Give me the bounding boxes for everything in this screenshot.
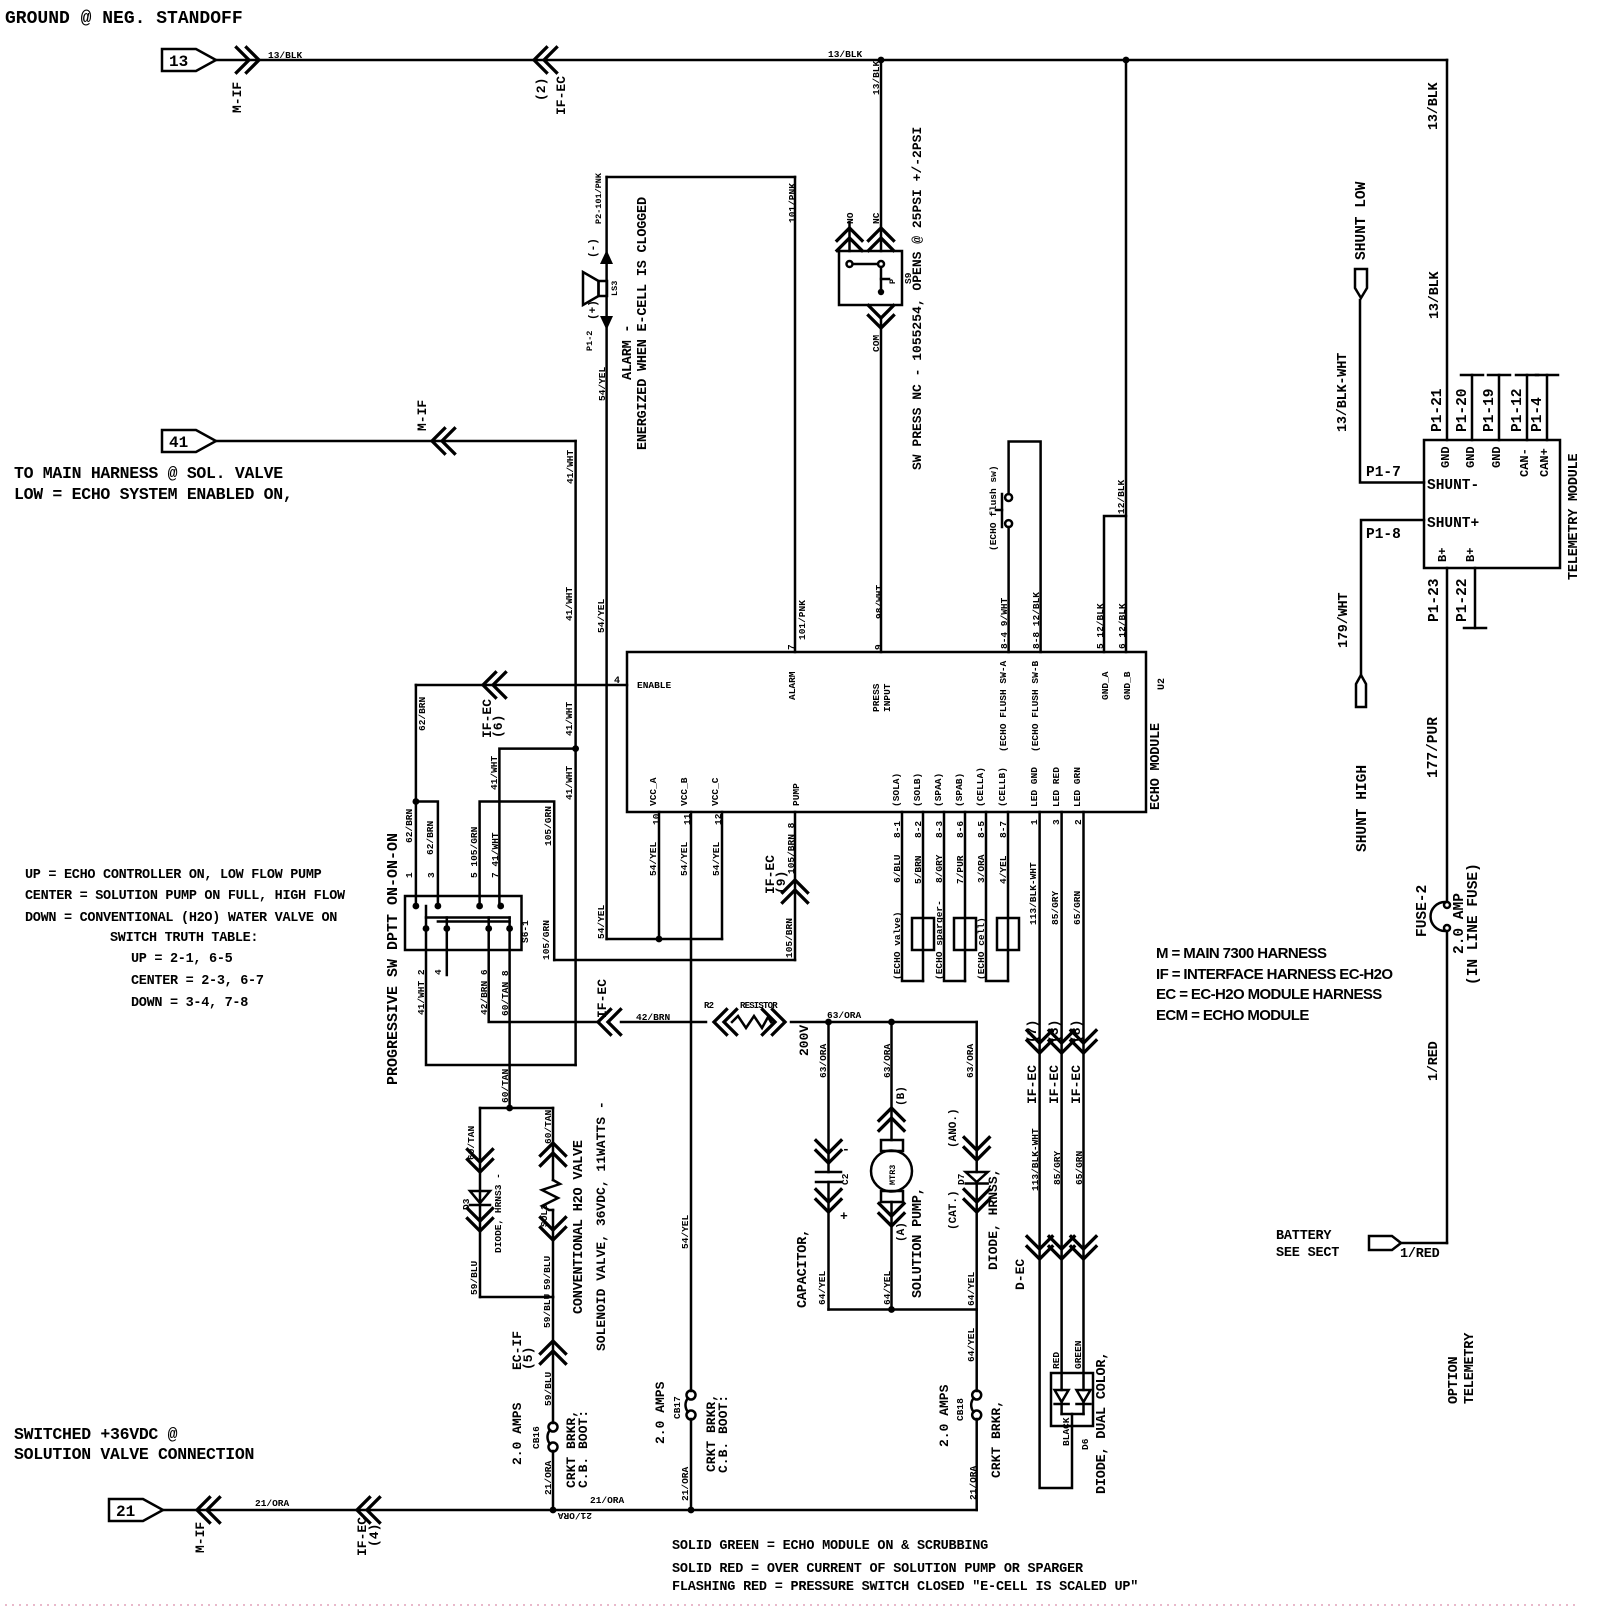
wire 54/YEL horizontal xyxy=(607,938,722,941)
wire 60/TAN valve top xyxy=(480,1107,553,1110)
svg-text:1: 1 xyxy=(1029,819,1040,825)
svg-text:P1-4: P1-4 xyxy=(1530,397,1546,432)
svg-text:C.B. BOOT:: C.B. BOOT: xyxy=(576,1410,591,1488)
svg-text:54/YEL: 54/YEL xyxy=(597,366,608,401)
svg-text:B+: B+ xyxy=(1464,548,1478,562)
svg-text:105/BRN 8: 105/BRN 8 xyxy=(786,822,797,874)
connector 13 xyxy=(162,49,216,71)
svg-text:PRESS: PRESS xyxy=(871,683,882,712)
svg-text:4: 4 xyxy=(433,969,444,975)
wire 54/YEL VCC_C xyxy=(721,812,724,939)
svg-text:5/BRN: 5/BRN xyxy=(913,855,924,884)
connector chevron IF-EC (9) xyxy=(783,880,808,903)
svg-text:(ECHO valve): (ECHO valve) xyxy=(892,912,903,980)
pressure switch NO stub xyxy=(848,222,851,251)
svg-text:(ECHO FLUSH SW-B: (ECHO FLUSH SW-B xyxy=(1030,660,1041,752)
wire alarm speaker branch xyxy=(605,177,608,939)
diode D7 xyxy=(966,1172,988,1182)
svg-text:(ECHO flush sw): (ECHO flush sw) xyxy=(988,465,999,551)
svg-text:ENERGIZED WHEN E-CELL IS CLOGG: ENERGIZED WHEN E-CELL IS CLOGGED xyxy=(636,197,651,450)
svg-text:(6): (6) xyxy=(491,715,506,738)
wire capacitor branch xyxy=(827,1022,830,1172)
svg-text:CONVENTIONAL H2O VALVE: CONVENTIONAL H2O VALVE xyxy=(572,1140,587,1314)
svg-text:RED: RED xyxy=(1051,1352,1062,1369)
svg-text:DIODE, HRNSS,: DIODE, HRNSS, xyxy=(986,1169,1001,1270)
svg-text:21/ORA: 21/ORA xyxy=(255,1498,290,1509)
svg-text:P1-23: P1-23 xyxy=(1427,578,1443,622)
wire 41/WHT pin2 xyxy=(426,929,576,1066)
wire 60/TAN pin8 xyxy=(508,929,511,1109)
fuse FUSE-2 xyxy=(1444,902,1450,908)
svg-text:GND: GND xyxy=(1439,446,1453,468)
telemetry module box xyxy=(1424,440,1560,568)
svg-text:21/ORA: 21/ORA xyxy=(557,1510,592,1521)
svg-text:10: 10 xyxy=(651,813,662,825)
wire shunt- xyxy=(1360,300,1424,483)
svg-text:GND: GND xyxy=(1490,446,1504,468)
wire diode D7 branch xyxy=(975,1022,978,1172)
wire 12/BLK GND_A jog xyxy=(1104,516,1126,652)
svg-text:(7): (7) xyxy=(1025,1020,1040,1043)
svg-text:S6-1: S6-1 xyxy=(520,920,531,943)
svg-text:105/GRN: 105/GRN xyxy=(541,920,552,960)
svg-text:PUMP: PUMP xyxy=(791,783,802,806)
wire pair 8-3/8-6 xyxy=(944,812,965,981)
svg-text:CENTER = 2-3, 6-7: CENTER = 2-3, 6-7 xyxy=(131,974,264,989)
svg-text:LED GND: LED GND xyxy=(1029,767,1040,807)
svg-text:7 41/WHT: 7 41/WHT xyxy=(490,832,501,878)
svg-text:NO: NO xyxy=(845,212,856,224)
svg-text:P1-2: P1-2 xyxy=(585,331,595,351)
svg-text:(2): (2) xyxy=(534,78,549,101)
ECHO module U2 xyxy=(627,652,1146,812)
svg-text:IF-EC: IF-EC xyxy=(554,76,569,115)
svg-text:DIODE, DUAL COLOR,: DIODE, DUAL COLOR, xyxy=(1095,1352,1110,1494)
svg-text:41/WHT: 41/WHT xyxy=(564,586,575,621)
circuit breaker CB18 xyxy=(972,1391,981,1400)
svg-text:4/YEL: 4/YEL xyxy=(998,855,1009,884)
svg-text:13/BLK: 13/BLK xyxy=(268,50,303,61)
svg-text:(SPAA): (SPAA) xyxy=(933,773,944,807)
svg-text:177/PUR: 177/PUR xyxy=(1426,717,1442,778)
speaker LS3 xyxy=(599,281,608,296)
pressure switch COM chevron xyxy=(869,306,894,329)
svg-text:(-): (-) xyxy=(588,238,600,258)
svg-text:54/YEL: 54/YEL xyxy=(648,841,659,876)
svg-text:2: 2 xyxy=(1073,819,1084,825)
wire 21/ORA bus xyxy=(163,1509,977,1512)
wire 54/YEL VCC_B xyxy=(690,812,693,1391)
svg-text:GND: GND xyxy=(1464,446,1478,468)
svg-text:NC: NC xyxy=(871,212,882,224)
svg-text:113/BLK-WHT: 113/BLK-WHT xyxy=(1028,862,1039,925)
load box on 8-7 xyxy=(997,918,1019,950)
svg-text:GND_B: GND_B xyxy=(1122,671,1133,700)
svg-text:SWITCHED +36VDC @: SWITCHED +36VDC @ xyxy=(14,1425,178,1444)
svg-text:3: 3 xyxy=(1051,819,1062,825)
svg-text:M-IF: M-IF xyxy=(193,1522,208,1553)
svg-text:9: 9 xyxy=(873,644,884,650)
svg-text:13/BLK: 13/BLK xyxy=(828,49,863,60)
svg-text:D7: D7 xyxy=(956,1173,967,1185)
svg-text:13/BLK-WHT: 13/BLK-WHT xyxy=(1336,353,1351,432)
svg-text:179/WHT: 179/WHT xyxy=(1337,593,1352,648)
echo flush switch xyxy=(1005,520,1012,527)
load box on 8-6 xyxy=(954,918,976,950)
svg-text:SHUNT+: SHUNT+ xyxy=(1427,516,1479,532)
svg-text:CRKT BRKR,: CRKT BRKR, xyxy=(989,1400,1004,1478)
circuit breaker CB16 xyxy=(549,1423,558,1432)
svg-text:2.0 AMPS: 2.0 AMPS xyxy=(937,1384,952,1447)
wire 113/BLK-WHT LED GND xyxy=(1040,812,1072,1488)
svg-text:60/TAN: 60/TAN xyxy=(466,1125,477,1160)
svg-text:8-7: 8-7 xyxy=(998,821,1009,838)
svg-text:59/BLU: 59/BLU xyxy=(542,1293,553,1328)
svg-text:200V: 200V xyxy=(797,1025,812,1056)
wire 63/ORA xyxy=(791,1021,977,1024)
svg-text:42/BRN: 42/BRN xyxy=(636,1012,671,1023)
svg-text:SEE SECT: SEE SECT xyxy=(1276,1246,1339,1261)
connector shunt low xyxy=(1355,269,1367,298)
svg-text:21: 21 xyxy=(116,1503,135,1521)
svg-text:DOWN = CONVENTIONAL (H2O) WATE: DOWN = CONVENTIONAL (H2O) WATER VALVE ON xyxy=(25,911,337,926)
svg-text:(8): (8) xyxy=(1069,1020,1084,1043)
connector chevron M-IF xyxy=(237,48,260,73)
svg-text:GROUND @ NEG. STANDOFF: GROUND @ NEG. STANDOFF xyxy=(5,9,243,29)
wire 62/BRN pin1 xyxy=(415,685,418,906)
svg-text:M-IF: M-IF xyxy=(230,82,245,113)
svg-text:TO MAIN HARNESS @ SOL. VALVE: TO MAIN HARNESS @ SOL. VALVE xyxy=(14,464,283,483)
connector chevron IF-EC (6) xyxy=(483,673,506,698)
wire 13/BLK top bus xyxy=(216,59,1447,62)
wire 12/BLK GND_B xyxy=(1125,60,1128,652)
arrow up (-) xyxy=(600,250,613,264)
svg-text:41/WHT: 41/WHT xyxy=(564,765,575,800)
connector chevrons IF-EC (7)(3)(8) xyxy=(1027,1031,1052,1054)
svg-text:21/ORA: 21/ORA xyxy=(590,1495,625,1506)
svg-text:SOLENOID VALVE, 36VDC, 11WATTS: SOLENOID VALVE, 36VDC, 11WATTS - xyxy=(594,1101,609,1351)
connector 41 xyxy=(162,430,216,452)
svg-text:ENABLE: ENABLE xyxy=(637,680,672,691)
svg-text:6 12/BLK: 6 12/BLK xyxy=(1117,603,1128,649)
connector shunt high xyxy=(1356,675,1366,707)
svg-text:SOLUTION PUMP,: SOLUTION PUMP, xyxy=(911,1187,926,1298)
svg-text:IF-EC: IF-EC xyxy=(1069,1065,1084,1104)
connector chevrons D-EC xyxy=(1027,1237,1052,1260)
svg-text:D6: D6 xyxy=(1080,1438,1091,1450)
svg-text:41/WHT: 41/WHT xyxy=(565,449,576,484)
arrow down (+) xyxy=(600,316,613,330)
svg-text:OPTION: OPTION xyxy=(1447,1356,1462,1404)
svg-text:INPUT: INPUT xyxy=(882,683,893,712)
svg-text:105/BRN: 105/BRN xyxy=(784,918,795,958)
svg-text:8-6: 8-6 xyxy=(955,821,966,838)
svg-text:13/BLK: 13/BLK xyxy=(1427,81,1442,130)
svg-text:-: - xyxy=(842,1142,850,1157)
svg-text:GND_A: GND_A xyxy=(1100,671,1111,700)
svg-text:(+): (+) xyxy=(588,300,600,320)
wire alarm loop top xyxy=(607,176,795,179)
wire 101/PNK alarm right xyxy=(794,177,797,652)
svg-text:(ANO.): (ANO.) xyxy=(948,1108,960,1148)
svg-text:8-5: 8-5 xyxy=(976,821,987,838)
page border dotted xyxy=(5,1604,1580,1606)
svg-text:(ECHO sparger-: (ECHO sparger- xyxy=(934,900,945,980)
svg-text:2.0 AMPS: 2.0 AMPS xyxy=(653,1381,668,1444)
svg-text:12/BLK: 12/BLK xyxy=(1116,479,1127,514)
diode D3 xyxy=(470,1191,490,1203)
svg-text:(ECHO cell): (ECHO cell) xyxy=(976,917,987,980)
svg-text:(B): (B) xyxy=(896,1086,908,1106)
svg-text:7/PUR: 7/PUR xyxy=(955,855,966,884)
svg-text:SHUNT LOW: SHUNT LOW xyxy=(1354,181,1370,260)
svg-text:60/TAN: 60/TAN xyxy=(543,1109,554,1144)
svg-text:60/TAN: 60/TAN xyxy=(500,1068,511,1103)
svg-text:(SPAB): (SPAB) xyxy=(954,773,965,807)
diode D6 dual color LED xyxy=(1051,1373,1093,1426)
wire 13/BLK drop to pressure switch xyxy=(880,60,883,251)
svg-text:64/YEL: 64/YEL xyxy=(817,1270,828,1305)
connector chevron M-IF xyxy=(432,429,455,454)
svg-text:+: + xyxy=(840,1209,848,1224)
svg-text:101/PNK: 101/PNK xyxy=(797,600,808,640)
progressive switch S6-1 xyxy=(405,896,522,950)
svg-text:2.0 AMPS: 2.0 AMPS xyxy=(510,1402,525,1465)
svg-text:59/BLU: 59/BLU xyxy=(469,1260,480,1295)
svg-text:7: 7 xyxy=(786,644,797,650)
svg-text:SWITCH TRUTH TABLE:: SWITCH TRUTH TABLE: xyxy=(110,931,258,946)
wire pair 8-5/8-7 xyxy=(986,812,1008,981)
svg-text:(CAT.): (CAT.) xyxy=(948,1190,960,1230)
svg-text:13/BLK: 13/BLK xyxy=(871,60,882,95)
svg-text:63/ORA: 63/ORA xyxy=(965,1043,976,1078)
svg-text:64/YEL: 64/YEL xyxy=(882,1270,893,1305)
svg-text:42/BRN 6: 42/BRN 6 xyxy=(479,969,490,1015)
svg-text:SHUNT HIGH: SHUNT HIGH xyxy=(1355,765,1371,852)
svg-text:85/GRY: 85/GRY xyxy=(1052,1150,1063,1185)
svg-text:5 105/GRN: 5 105/GRN xyxy=(469,826,480,878)
wire SOL3 branch xyxy=(552,1108,555,1180)
svg-text:8-3: 8-3 xyxy=(934,821,945,838)
svg-text:MTR3: MTR3 xyxy=(888,1165,898,1185)
svg-text:54/YEL: 54/YEL xyxy=(679,841,690,876)
svg-text:62/BRN: 62/BRN xyxy=(404,808,415,843)
svg-text:CAN+: CAN+ xyxy=(1538,448,1552,477)
svg-text:VCC_B: VCC_B xyxy=(679,777,690,806)
svg-text:P1-12: P1-12 xyxy=(1510,388,1526,432)
svg-text:CENTER = SOLUTION PUMP ON FULL: CENTER = SOLUTION PUMP ON FULL, HIGH FLO… xyxy=(25,889,346,904)
svg-text:LOW = ECHO SYSTEM ENABLED ON,: LOW = ECHO SYSTEM ENABLED ON, xyxy=(14,485,292,504)
wire valve loop bottom xyxy=(480,1296,553,1299)
wire 65/GRN LED GRN xyxy=(1082,812,1085,1390)
svg-text:3/ORA: 3/ORA xyxy=(976,854,987,883)
svg-text:M-IF: M-IF xyxy=(415,400,430,431)
svg-text:59/BLU: 59/BLU xyxy=(543,1371,554,1406)
wire enable xyxy=(416,684,627,687)
svg-text:P1-19: P1-19 xyxy=(1482,388,1498,432)
svg-text:63/ORA: 63/ORA xyxy=(882,1043,893,1078)
svg-text:54/YEL: 54/YEL xyxy=(596,904,607,939)
svg-text:TELEMETRY: TELEMETRY xyxy=(1463,1332,1478,1404)
svg-text:SOLUTION VALVE CONNECTION: SOLUTION VALVE CONNECTION xyxy=(14,1445,254,1464)
svg-text:60/TAN 8: 60/TAN 8 xyxy=(500,970,511,1016)
wire 41/WHT top xyxy=(216,440,576,443)
wire 105/BRN pump xyxy=(794,812,797,960)
wire 98/WHT press input xyxy=(880,318,883,652)
wire to CB18 xyxy=(975,1310,978,1392)
svg-text:13: 13 xyxy=(169,53,188,71)
svg-text:(SOLB): (SOLB) xyxy=(912,773,923,807)
wire 54/YEL VCC_A xyxy=(658,812,661,939)
wire pin4 stub xyxy=(446,929,449,976)
wire pair 8-1/8-2 xyxy=(902,812,923,981)
svg-text:VCC_C: VCC_C xyxy=(710,777,721,806)
svg-text:8-4 9/WHT: 8-4 9/WHT xyxy=(999,597,1010,649)
svg-text:101/PNK: 101/PNK xyxy=(787,183,798,223)
resistor R2 xyxy=(714,1010,737,1035)
svg-text:13/BLK: 13/BLK xyxy=(1428,270,1443,319)
svg-text:59/BLU: 59/BLU xyxy=(542,1255,553,1290)
svg-text:(IN LINE FUSE): (IN LINE FUSE) xyxy=(1466,863,1482,985)
svg-text:1/RED: 1/RED xyxy=(1400,1247,1440,1262)
svg-text:D-EC: D-EC xyxy=(1013,1259,1028,1290)
svg-text:ECHO MODULE: ECHO MODULE xyxy=(1149,723,1164,810)
svg-text:6/BLU: 6/BLU xyxy=(892,854,903,883)
wire 42/BRN to resistor xyxy=(598,1010,621,1035)
svg-text:IF = INTERFACE HARNESS EC-H2O: IF = INTERFACE HARNESS EC-H2O xyxy=(1156,966,1393,983)
svg-text:CB16: CB16 xyxy=(531,1426,542,1449)
svg-text:21/ORA: 21/ORA xyxy=(680,1466,691,1501)
svg-text:M = MAIN 7300 HARNESS: M = MAIN 7300 HARNESS xyxy=(1156,945,1327,962)
svg-text:P2-101/PNK: P2-101/PNK xyxy=(594,172,604,224)
svg-text:64/YEL: 64/YEL xyxy=(966,1327,977,1362)
svg-text:EC = EC-H2O MODULE HARNESS: EC = EC-H2O MODULE HARNESS xyxy=(1156,986,1382,1003)
svg-text:41/WHT: 41/WHT xyxy=(489,755,500,790)
svg-text:(CELLB): (CELLB) xyxy=(997,767,1008,807)
svg-text:4: 4 xyxy=(614,676,620,687)
wire P1-22 stub xyxy=(1474,568,1477,628)
svg-text:UP = ECHO CONTROLLER ON, LOW F: UP = ECHO CONTROLLER ON, LOW FLOW PUMP xyxy=(25,868,322,883)
svg-text:VCC_A: VCC_A xyxy=(648,777,659,806)
svg-text:1: 1 xyxy=(404,872,415,878)
wire 85/GRY LED RED xyxy=(1060,812,1063,1390)
svg-text:(4): (4) xyxy=(367,1524,382,1547)
wire 62/BRN pin3 xyxy=(416,802,438,907)
pin stubs P1-20 P1-19 P1-12 P1-4 xyxy=(1471,375,1474,440)
svg-text:CB17: CB17 xyxy=(672,1396,683,1419)
svg-text:CAN-: CAN- xyxy=(1518,448,1532,477)
svg-text:64/YEL: 64/YEL xyxy=(966,1271,977,1306)
svg-text:LED GRN: LED GRN xyxy=(1072,767,1083,807)
svg-text:DOWN = 3-4, 7-8: DOWN = 3-4, 7-8 xyxy=(131,996,248,1011)
svg-text:SOLID RED = OVER CURRENT OF SO: SOLID RED = OVER CURRENT OF SOLUTION PUM… xyxy=(672,1562,1084,1577)
svg-text:PROGRESSIVE SW DPTT ON-ON-ON: PROGRESSIVE SW DPTT ON-ON-ON xyxy=(385,833,402,1085)
svg-text:5 12/BLK: 5 12/BLK xyxy=(1095,603,1106,649)
svg-text:SW PRESS NC - 1055254, OPENS @: SW PRESS NC - 1055254, OPENS @ 25PSI +/-… xyxy=(910,127,925,470)
pressure switch contacts xyxy=(847,261,853,267)
connector chevron (2) IF-EC xyxy=(534,48,557,73)
svg-text:21/ORA: 21/ORA xyxy=(543,1460,554,1495)
svg-text:LS3: LS3 xyxy=(610,281,620,296)
capacitor C2 xyxy=(816,1171,841,1174)
svg-text:63/ORA: 63/ORA xyxy=(827,1010,862,1021)
svg-text:BLACK: BLACK xyxy=(1061,1417,1072,1446)
svg-text:P1-21: P1-21 xyxy=(1430,388,1446,432)
svg-text:62/BRN: 62/BRN xyxy=(417,696,428,731)
svg-text:P1-20: P1-20 xyxy=(1455,388,1471,432)
svg-text:(3): (3) xyxy=(1047,1020,1062,1043)
svg-text:DIODE, HRNS3 -: DIODE, HRNS3 - xyxy=(493,1173,504,1253)
wire B+ 1/RED xyxy=(1446,568,1449,901)
connector chevron EC-IF (5) xyxy=(541,1341,566,1364)
svg-text:LED RED: LED RED xyxy=(1051,767,1062,807)
wire 41/WHT pin7 xyxy=(499,749,575,906)
svg-text:63/ORA: 63/ORA xyxy=(818,1043,829,1078)
svg-text:65/GRN: 65/GRN xyxy=(1074,1150,1085,1185)
svg-text:62/BRN: 62/BRN xyxy=(425,820,436,855)
svg-text:65/GRN: 65/GRN xyxy=(1072,890,1083,925)
svg-text:C.B. BOOT:: C.B. BOOT: xyxy=(716,1395,731,1473)
svg-text:(SOLA): (SOLA) xyxy=(891,773,902,807)
svg-text:SOLID GREEN = ECHO MODULE ON &: SOLID GREEN = ECHO MODULE ON & SCRUBBING xyxy=(672,1539,988,1554)
svg-text:8-8 12/BLK: 8-8 12/BLK xyxy=(1031,592,1042,649)
svg-text:IF-EC: IF-EC xyxy=(1047,1065,1062,1104)
svg-text:12: 12 xyxy=(713,813,724,825)
wire motor branch xyxy=(890,1022,893,1140)
svg-text:(9): (9) xyxy=(774,871,789,894)
svg-text:54/YEL: 54/YEL xyxy=(680,1214,691,1249)
svg-text:11: 11 xyxy=(682,813,693,825)
svg-text:RESISTOR: RESISTOR xyxy=(740,1001,778,1011)
svg-text:FLASHING RED = PRESSURE SWITCH: FLASHING RED = PRESSURE SWITCH CLOSED "E… xyxy=(672,1580,1138,1595)
svg-text:TELEMETRY MODULE: TELEMETRY MODULE xyxy=(1567,453,1582,580)
pressure switch NC chevron xyxy=(869,228,894,251)
svg-text:IF-EC: IF-EC xyxy=(595,979,610,1018)
svg-text:85/GRY: 85/GRY xyxy=(1050,890,1061,925)
svg-text:98/WHT: 98/WHT xyxy=(874,584,885,619)
svg-text:B+: B+ xyxy=(1436,548,1450,562)
svg-text:CB18: CB18 xyxy=(955,1398,966,1421)
svg-text:R2: R2 xyxy=(704,1001,714,1011)
wire 42/BRN pin6 xyxy=(489,929,597,1023)
svg-text:113/BLK-WHT: 113/BLK-WHT xyxy=(1030,1128,1041,1191)
svg-text:8-2: 8-2 xyxy=(913,821,924,838)
wire 13/BLK right drop xyxy=(1446,60,1449,440)
svg-text:SHUNT-: SHUNT- xyxy=(1427,478,1479,494)
svg-text:UP = 2-1, 6-5: UP = 2-1, 6-5 xyxy=(131,952,233,967)
svg-text:P1-8: P1-8 xyxy=(1366,527,1401,543)
load box on 8-2 xyxy=(912,918,934,950)
svg-text:P: P xyxy=(888,279,898,284)
svg-text:FUSE-2: FUSE-2 xyxy=(1415,885,1431,937)
svg-text:ALARM: ALARM xyxy=(787,671,798,700)
svg-text:BATTERY: BATTERY xyxy=(1276,1229,1332,1244)
svg-text:3: 3 xyxy=(426,872,437,878)
svg-text:U2: U2 xyxy=(1157,678,1168,690)
svg-text:21/ORA: 21/ORA xyxy=(968,1465,979,1500)
svg-text:P1-22: P1-22 xyxy=(1455,578,1471,622)
connector chevron M-IF xyxy=(197,1498,220,1523)
svg-text:ALARM -: ALARM - xyxy=(621,325,636,380)
connector 21 xyxy=(109,1499,163,1521)
wire diode D3 branch xyxy=(479,1108,482,1297)
svg-text:ECM = ECHO MODULE: ECM = ECHO MODULE xyxy=(1156,1007,1309,1024)
wire pump circuit bottom 64/YEL xyxy=(829,1308,977,1311)
svg-text:41/WHT 2: 41/WHT 2 xyxy=(416,969,427,1015)
svg-text:GREEN: GREEN xyxy=(1073,1340,1084,1369)
pressure switch S9 xyxy=(839,251,902,305)
svg-text:(A): (A) xyxy=(896,1222,908,1242)
